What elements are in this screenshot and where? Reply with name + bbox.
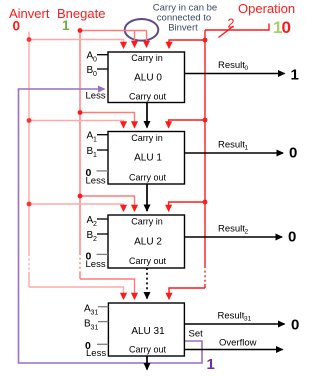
svg-text:2: 2 (93, 221, 97, 228)
wire Operation branch into ALU0 (169, 40, 205, 48)
svg-text:0: 0 (93, 57, 97, 64)
pin A2 of ALU2 (87, 215, 109, 228)
wire carry out of ALU31 (146, 356, 148, 370)
svg-text:1: 1 (93, 152, 97, 159)
result wire Result1 (185, 152, 284, 154)
pin B1 of ALU1 (87, 146, 109, 159)
svg-text:ALU 31: ALU 31 (131, 326, 165, 337)
svg-text:1: 1 (62, 18, 70, 33)
result wire Result31 (184, 323, 284, 325)
pin B31 of ALU31 (84, 318, 108, 331)
svg-text:1: 1 (207, 356, 215, 373)
svg-text:2: 2 (93, 236, 97, 243)
svg-text:Result: Result (218, 60, 245, 71)
pin B0 of ALU0 (87, 65, 109, 78)
wire carry ALU2 to ALU31 (dotted) (146, 268, 148, 299)
junction Bnegate/ALU1 (78, 110, 83, 115)
wire Bnegate branch into ALU31 (80, 279, 135, 299)
svg-text:Carry out: Carry out (129, 92, 167, 102)
bus width slash (219, 26, 234, 38)
wire Operation branch into ALU31 (169, 288, 205, 299)
wire Bnegate vertical trunk (dotted) (79, 253, 81, 272)
wire carry ALU1 to ALU2 (146, 184, 148, 211)
label Result31 (218, 311, 252, 323)
svg-text:1: 1 (245, 145, 249, 152)
annotation ellipse around carry-in/Binvert junction (125, 19, 159, 41)
svg-text:Carry out: Carry out (129, 345, 167, 355)
junction Operation/ALU1 (203, 118, 208, 123)
wire Bnegate vertical trunk (solid lower) (79, 272, 81, 279)
wire Operation vertical trunk (solid upper) (204, 30, 206, 266)
svg-text:Less: Less (86, 91, 106, 102)
wire Operation bus horizontal (top) (205, 24, 269, 31)
result wire Result2 (185, 236, 283, 238)
wire Set feedback (purple) from ALU31 Set to ALU0 Less (19, 89, 203, 363)
pin Less of ALU1 tied to 0 (86, 167, 109, 187)
svg-text:2: 2 (245, 229, 249, 236)
junction Ainvert/ALU0 (27, 37, 32, 42)
wire Bnegate branch into ALU2 (80, 196, 135, 211)
svg-text:Binvert: Binvert (168, 23, 198, 34)
wire Bnegate branch into ALU1 (80, 113, 135, 128)
annotation text: Carry in can be connected to Binvert (153, 3, 217, 34)
wire Ainvert branch into ALU0 (29, 40, 124, 49)
svg-text:0: 0 (289, 145, 297, 162)
svg-text:31: 31 (91, 324, 99, 331)
wire Ainvert branch into ALU1 (29, 121, 124, 128)
wire Overflow output (184, 349, 282, 351)
svg-text:1: 1 (291, 67, 299, 84)
svg-text:Carry in: Carry in (131, 53, 163, 63)
ALU block U0 (ALU 0) (108, 52, 185, 103)
svg-text:Result: Result (218, 311, 245, 322)
svg-text:0: 0 (13, 19, 21, 34)
wire Operation vertical trunk (dotted) (204, 266, 206, 284)
result wire Result0 (185, 73, 285, 75)
wire Bnegate vertical trunk (solid upper) (79, 31, 81, 254)
label Result1 (218, 140, 249, 152)
svg-text:Set: Set (189, 329, 204, 340)
wire Ainvert branch into ALU31 (29, 287, 124, 299)
wire carry-in from Binvert into ALU0 (146, 31, 148, 48)
pin A31 of ALU31 (84, 304, 108, 317)
junction Ainvert/ALU1 (27, 118, 32, 123)
junction Operation/ALU0 (203, 38, 208, 43)
svg-text:Carry in: Carry in (131, 133, 163, 143)
junction Ainvert/ALU2 (27, 202, 32, 207)
svg-text:ALU 2: ALU 2 (134, 237, 162, 248)
svg-text:31: 31 (244, 316, 252, 323)
wire Operation branch into ALU2 (169, 202, 205, 211)
svg-text:0: 0 (291, 317, 299, 334)
wire Operation vertical trunk (solid lower) (204, 284, 206, 288)
svg-text:Carry out: Carry out (129, 173, 167, 183)
wire Ainvert vertical trunk (solid upper) (28, 32, 30, 255)
svg-text:Less: Less (86, 348, 106, 359)
wire Bnegate arrow into ALU0 (134, 31, 136, 48)
pin A1 of ALU1 (87, 131, 109, 144)
svg-text:31: 31 (91, 310, 99, 317)
svg-text:Carry out: Carry out (129, 256, 167, 266)
svg-text:ALU 1: ALU 1 (134, 153, 162, 164)
svg-text:0: 0 (93, 71, 97, 78)
junction Bnegate top (78, 28, 83, 33)
pin B2 of ALU2 (87, 230, 109, 243)
wire Operation branch into ALU1 (169, 120, 205, 128)
svg-text:0: 0 (282, 18, 291, 37)
ALU block U1 (ALU 1) (108, 132, 185, 185)
svg-text:Less: Less (86, 259, 106, 270)
pin A0 of ALU0 (87, 51, 109, 64)
svg-text:Carry in: Carry in (131, 217, 163, 227)
svg-text:Overflow: Overflow (219, 338, 257, 349)
junction Operation/ALU2 (203, 200, 208, 205)
ALU block U2 (ALU 2) (108, 215, 185, 268)
pin Less of ALU2 tied to 0 (86, 251, 109, 271)
wire Ainvert branch into ALU2 (29, 204, 124, 211)
ALU block U31 (ALU 31) (108, 303, 184, 356)
svg-text:Operation: Operation (238, 1, 295, 16)
wire carry ALU0 to ALU1 (146, 103, 148, 128)
svg-text:0: 0 (245, 65, 249, 72)
wire Bnegate top horizontal to carry-in (80, 30, 147, 32)
svg-text:ALU 0: ALU 0 (134, 73, 162, 84)
svg-text:Result: Result (218, 140, 245, 151)
svg-text:Less: Less (86, 176, 106, 187)
label Result0 (218, 60, 249, 72)
wire Ainvert vertical trunk (solid lower) (28, 272, 30, 287)
label Result2 (218, 224, 249, 236)
svg-text:1: 1 (93, 137, 97, 144)
svg-text:0: 0 (288, 229, 296, 246)
svg-text:Result: Result (218, 224, 245, 235)
pin Less of ALU31 tied to 0 (85, 340, 108, 359)
wire Ainvert vertical trunk (dotted) (28, 254, 30, 272)
junction Bnegate/ALU2 (78, 194, 83, 199)
